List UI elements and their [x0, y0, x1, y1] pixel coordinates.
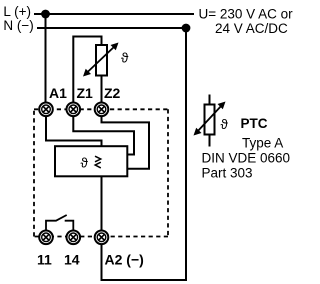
wire A1 drop from L	[45, 14, 47, 103]
svg-text:24 V AC/DC: 24 V AC/DC	[215, 21, 288, 36]
dashed enclosure box	[34, 109, 168, 236]
switch contact 11-14	[46, 215, 73, 231]
wire A2 down to rail and N rail up	[102, 28, 187, 280]
terminal A1	[39, 103, 53, 117]
svg-text:11: 11	[37, 252, 52, 268]
wire box bottom to A2	[101, 176, 103, 231]
terminal 14	[67, 231, 81, 245]
thermistor RT1 body	[96, 45, 107, 76]
svg-text:DIN VDE 0660: DIN VDE 0660	[202, 151, 291, 166]
svg-text:14: 14	[64, 252, 80, 268]
trip unit box	[55, 146, 127, 176]
wire sensor loop Z1 up and over	[73, 37, 101, 104]
svg-text:N (−): N (−)	[3, 18, 33, 33]
svg-text:A1: A1	[49, 85, 67, 101]
svg-text:ϑ: ϑ	[121, 51, 129, 66]
node N junction dot	[182, 24, 191, 33]
symbol greater-less in box	[95, 156, 101, 168]
svg-text:PTC: PTC	[241, 116, 268, 131]
svg-text:Type A: Type A	[242, 136, 283, 151]
svg-text:U= 230 V AC or: U= 230 V AC or	[199, 7, 294, 22]
wire N line	[37, 27, 186, 29]
wire Z1 to box right	[73, 116, 134, 155]
node L junction dot	[41, 10, 50, 19]
thermistor RT1 arrow	[83, 43, 119, 77]
wire L line	[34, 13, 194, 15]
PTC sensor symbol	[194, 95, 226, 147]
wire Z2 to box right	[102, 116, 150, 169]
svg-text:Z1: Z1	[77, 85, 94, 101]
svg-text:A2 (−): A2 (−)	[105, 252, 144, 268]
terminal 11	[39, 231, 53, 245]
svg-text:L (+): L (+)	[3, 4, 31, 19]
wire thermistor to Z2	[101, 76, 103, 104]
svg-text:Part 303: Part 303	[202, 166, 253, 181]
terminal A2	[95, 231, 109, 245]
terminal Z2	[95, 103, 109, 117]
wire A1 to box top	[46, 116, 102, 146]
svg-text:ϑ: ϑ	[81, 156, 89, 171]
terminal Z1	[67, 103, 81, 117]
svg-text:Z2: Z2	[104, 85, 121, 101]
svg-text:ϑ: ϑ	[221, 117, 229, 132]
